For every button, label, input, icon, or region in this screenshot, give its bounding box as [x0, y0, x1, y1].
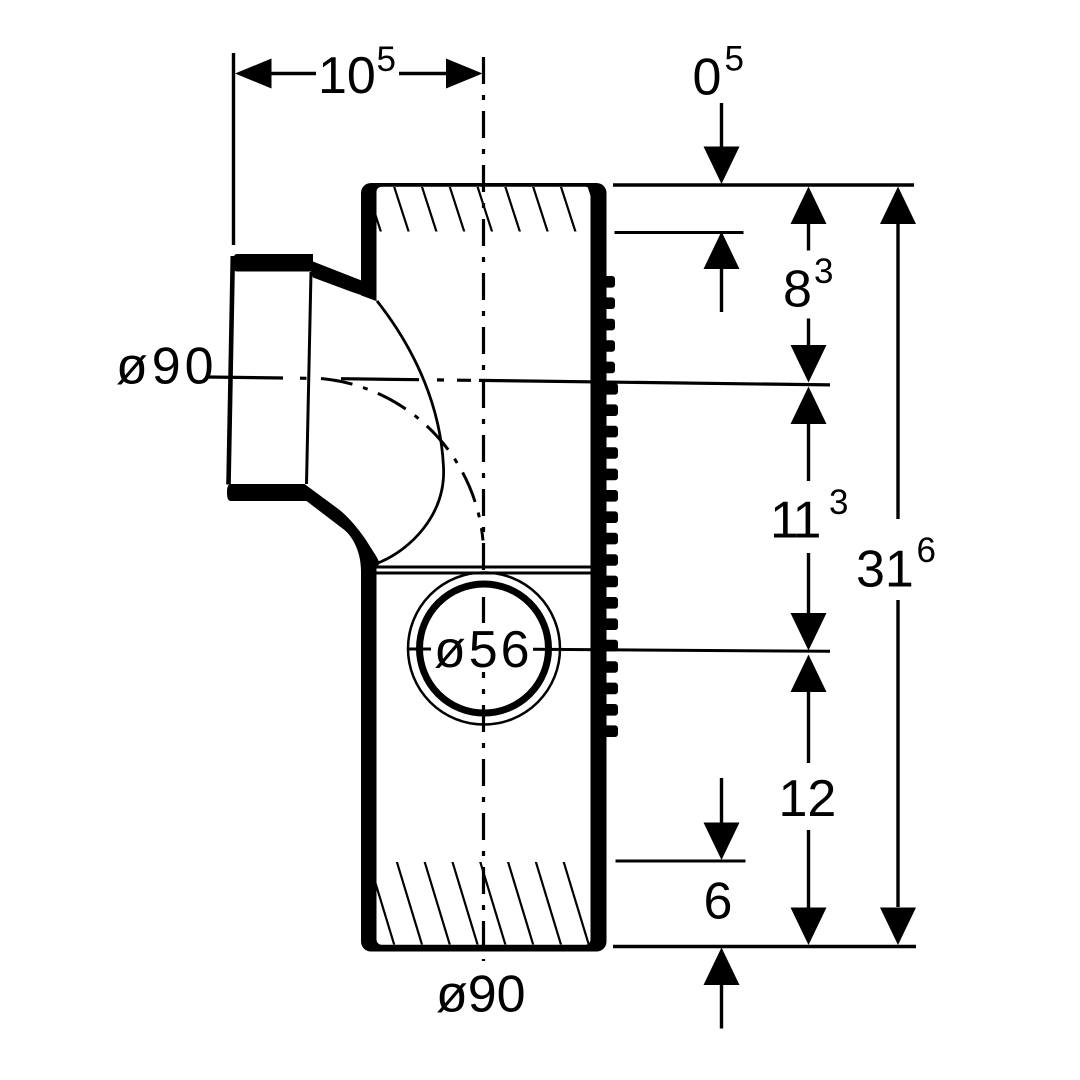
dimension 8-3 [807, 224, 810, 346]
svg-text:3: 3 [814, 252, 833, 291]
reference line socket depth [615, 231, 744, 234]
side outlet circle outer [408, 573, 560, 725]
dimension 31-6 overall [896, 224, 899, 907]
svg-text:ø56: ø56 [434, 621, 533, 679]
svg-text:31: 31 [856, 541, 914, 599]
branch opening in left wall [340, 292, 378, 564]
svg-text:6: 6 [917, 531, 936, 570]
branch socket mouth face [229, 256, 233, 485]
svg-text:8: 8 [783, 261, 812, 319]
joint line lower [377, 572, 591, 575]
reference line outlet upper [616, 860, 746, 863]
dimension 12 [807, 692, 810, 908]
branch socket upper wall [233, 254, 378, 301]
side outlet circle o56 bore [420, 584, 549, 713]
branch socket lower wall [227, 484, 380, 590]
dimension 11-3 [807, 424, 810, 613]
svg-text:ø90: ø90 [436, 966, 526, 1024]
svg-text:0: 0 [693, 49, 722, 107]
reference line bottom edge [613, 945, 916, 948]
branch flow centerline arc [321, 379, 483, 541]
svg-text:12: 12 [779, 770, 837, 828]
bottom cross-section hatching [341, 861, 645, 946]
branch inner bore curve [377, 301, 444, 563]
branch socket depth line [307, 272, 312, 484]
svg-text:6: 6 [704, 873, 733, 931]
pipe body ribs right side [600, 276, 618, 737]
vertical centerline [482, 57, 485, 961]
branch horizontal centerline [207, 377, 830, 385]
svg-text:5: 5 [377, 40, 396, 79]
svg-text:10: 10 [318, 47, 376, 105]
svg-text:3: 3 [829, 483, 848, 522]
joint line upper [377, 566, 591, 569]
label o56 outlet [407, 648, 433, 651]
top cross-section hatching [338, 185, 632, 233]
reference line top edge [613, 183, 914, 186]
svg-text:ø90: ø90 [116, 338, 218, 396]
dimension 6 [720, 778, 723, 1029]
svg-text:11: 11 [770, 492, 820, 550]
dimension 10-5 top width [234, 53, 449, 245]
svg-text:5: 5 [725, 40, 744, 79]
main pipe body outer wall [361, 183, 607, 952]
